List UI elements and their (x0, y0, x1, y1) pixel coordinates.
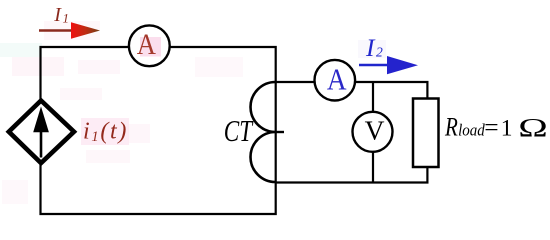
svg-text:load: load (458, 122, 485, 140)
current source I1 (diamond with up arrow) (9, 101, 74, 164)
svg-text:I: I (365, 33, 376, 62)
label I2 (365, 33, 383, 62)
ammeter A2 (315, 60, 356, 101)
svg-text:CT: CT (224, 114, 254, 148)
svg-text:V: V (365, 114, 385, 145)
arrow I1 (39, 22, 100, 38)
voltmeter V (353, 112, 393, 152)
wire voltmeter branch (372, 82, 374, 183)
svg-text:I: I (53, 4, 62, 26)
resistor Rload (413, 99, 439, 168)
arrow I2 (359, 56, 418, 74)
svg-text:=: = (484, 112, 498, 141)
wire center tap tick (276, 131, 285, 133)
wire primary loop (41, 47, 276, 214)
svg-text:2: 2 (376, 44, 383, 59)
svg-text:Ω: Ω (518, 114, 548, 143)
svg-text:R: R (444, 113, 458, 142)
label Rload = 1 Ohm (444, 112, 548, 142)
svg-text:A: A (327, 63, 347, 97)
label I1 (53, 4, 69, 26)
wire secondary loop (276, 82, 428, 183)
svg-text:1: 1 (63, 11, 70, 26)
svg-text:1: 1 (501, 115, 513, 141)
svg-text:i1(t): i1(t) (83, 119, 128, 146)
svg-text:A: A (137, 29, 157, 62)
transformer CT secondary winding (250, 82, 275, 182)
ammeter A1 (129, 25, 170, 66)
